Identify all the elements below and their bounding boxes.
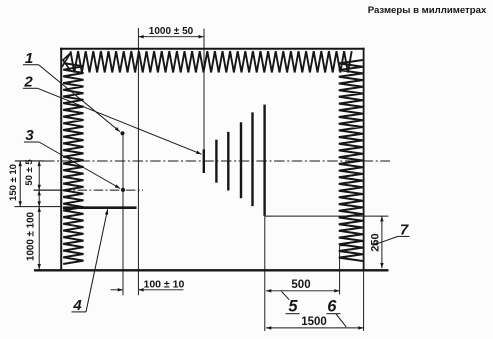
left wall absorber zigzag bbox=[63, 63, 83, 264]
table top (item 4) bbox=[63, 206, 137, 209]
absorber step horizontal edge bbox=[340, 245, 351, 247]
extension line table edge bbox=[137, 28, 139, 295]
antenna element 5 bbox=[251, 112, 253, 206]
dimension 100 +/- 10 bbox=[111, 289, 184, 291]
dimension 1000 +/- 100 bbox=[38, 207, 40, 270]
right wall absorber zigzag bbox=[339, 60, 363, 261]
dimension 50 +/- 5 bbox=[38, 161, 40, 207]
svg-text:6: 6 bbox=[327, 297, 337, 315]
svg-text:1000 ± 100: 1000 ± 100 bbox=[25, 211, 36, 261]
unlabeled gap dimension bbox=[38, 190, 40, 207]
extension line from node 1 bbox=[122, 133, 124, 295]
antenna element 2 bbox=[215, 140, 217, 183]
svg-text:7: 7 bbox=[400, 221, 409, 238]
leader 2 bbox=[38, 88, 202, 154]
leader 7 bbox=[373, 236, 398, 245]
leader 1 bbox=[39, 65, 120, 132]
dimension 150 +/- 10 bbox=[19, 161, 21, 207]
chamber horizontal centerline bbox=[15, 160, 44, 162]
antenna element 1 bbox=[203, 149, 205, 173]
floor ground plane bbox=[34, 269, 389, 271]
extension line antenna tip bbox=[203, 29, 205, 153]
chamber left wall bbox=[60, 48, 62, 271]
leader 6 bbox=[336, 314, 346, 327]
node dot 1 bbox=[120, 131, 124, 135]
leader 4 bbox=[86, 209, 108, 312]
svg-text:50 ± 5: 50 ± 5 bbox=[24, 159, 35, 186]
cable height dash-dot line (item 3) bbox=[34, 189, 62, 191]
tick at centerline left bbox=[15, 160, 44, 162]
antenna element 6 bbox=[263, 105, 265, 216]
dimension 500 bbox=[266, 290, 340, 292]
extension line below element 6 bbox=[264, 216, 266, 331]
corner absorber wedge top-left bbox=[62, 53, 71, 70]
tick at table level left bbox=[15, 206, 62, 208]
dimension 1000 +/- 50 bbox=[138, 36, 203, 38]
right wall extension to 1500 dim bbox=[363, 271, 365, 332]
chamber top wall bbox=[60, 48, 365, 50]
svg-text:100 ± 10: 100 ± 10 bbox=[144, 278, 185, 290]
leader 3 bbox=[39, 142, 120, 189]
top wall absorber zigzag bbox=[71, 51, 352, 72]
svg-text:1000 ± 50: 1000 ± 50 bbox=[149, 26, 194, 37]
svg-text:1500: 1500 bbox=[301, 316, 327, 328]
tick at cable line left bbox=[34, 189, 62, 191]
svg-text:150 ± 10: 150 ± 10 bbox=[8, 164, 19, 201]
antenna element 3 bbox=[227, 132, 229, 191]
dimension 250 bbox=[381, 216, 383, 268]
chamber right wall bbox=[363, 48, 365, 271]
leader 5 bbox=[281, 291, 289, 300]
svg-text:Размеры в миллиметрах: Размеры в миллиметрах bbox=[368, 5, 487, 16]
dimension 1500 bbox=[266, 327, 364, 329]
extension line step (500) bbox=[339, 246, 341, 295]
node dot 3 bbox=[121, 188, 125, 192]
svg-text:500: 500 bbox=[291, 279, 310, 291]
antenna element 4 bbox=[240, 122, 242, 198]
horizontal extension at element 6 bottom bbox=[265, 215, 389, 217]
svg-text:5: 5 bbox=[288, 297, 298, 315]
